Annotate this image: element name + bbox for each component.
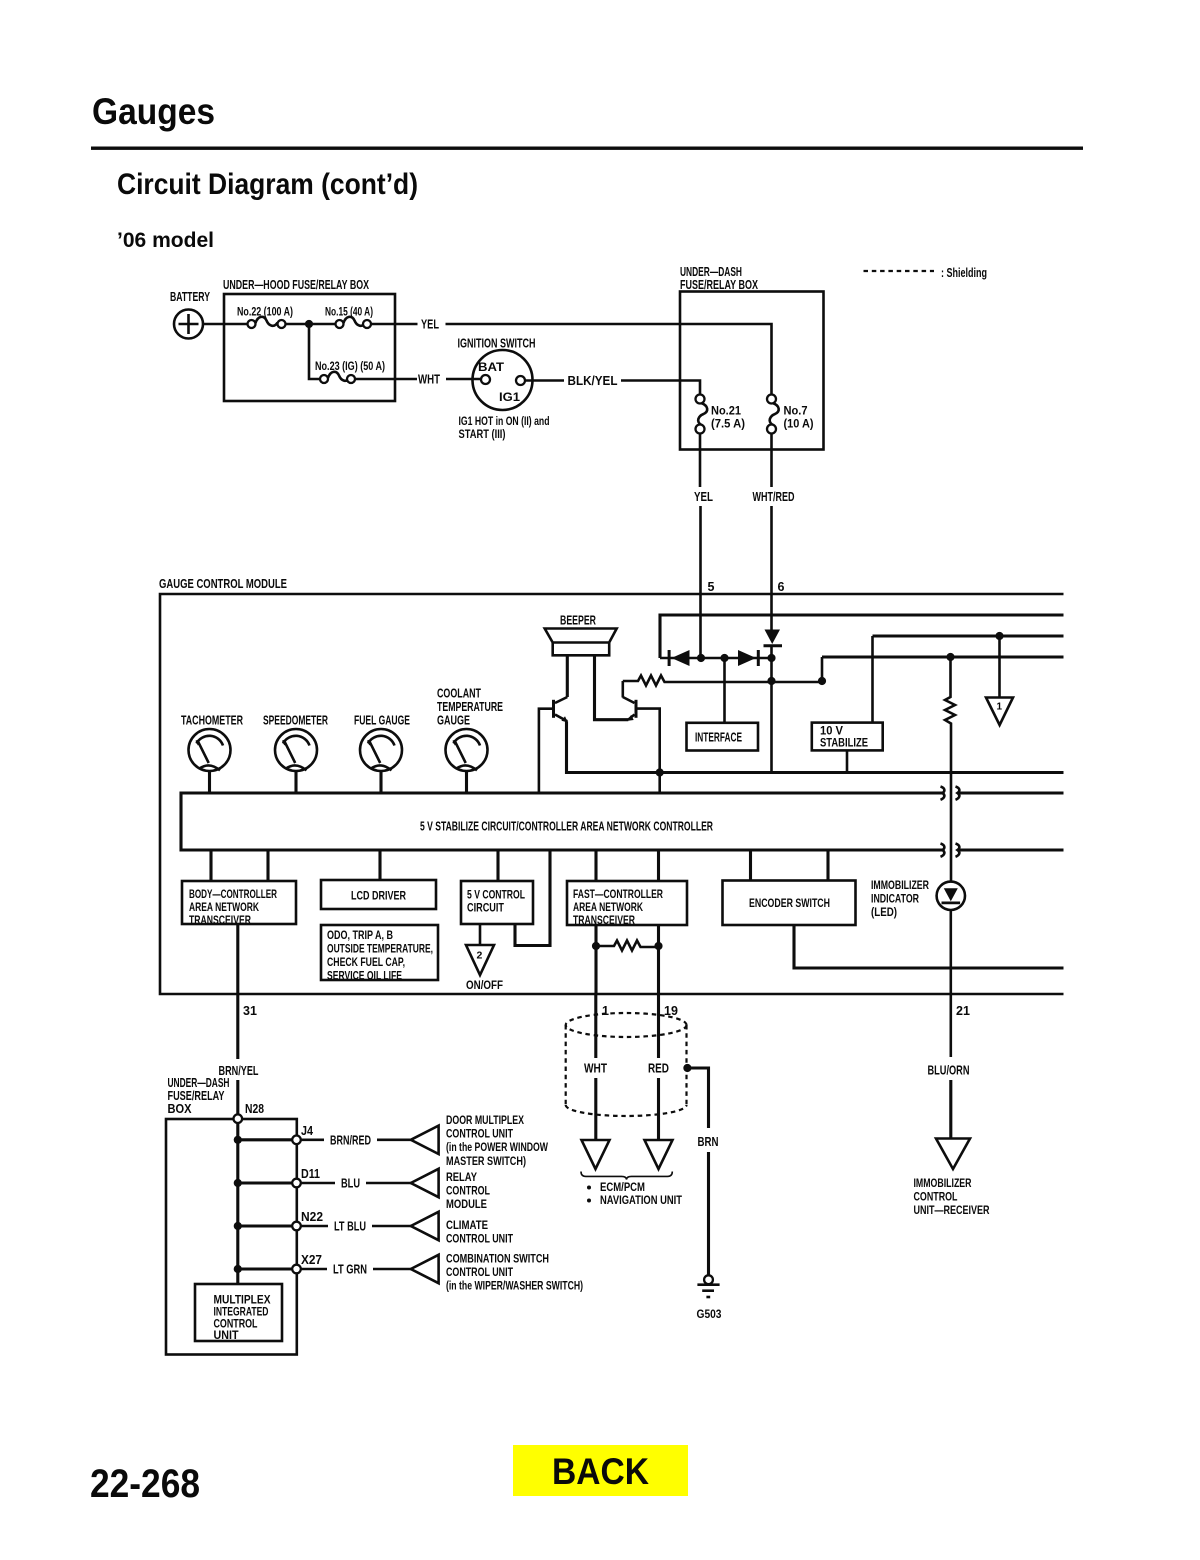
svg-text:BLK/YEL: BLK/YEL — [568, 374, 618, 388]
wire beeper right leg — [595, 655, 629, 719]
svg-text:FAST—CONTROLLER: FAST—CONTROLLER — [573, 889, 664, 901]
wire bus to fast CAN (right) — [657, 850, 660, 881]
wire body CAN to pin 31 — [236, 924, 239, 994]
svg-text:GAUGE CONTROL MODULE: GAUGE CONTROL MODULE — [159, 577, 287, 591]
diode D3 — [764, 630, 783, 648]
receiver triangle N22 — [411, 1212, 439, 1240]
net B horizontal — [873, 634, 1064, 637]
receiver triangle RED — [645, 1140, 673, 1169]
svg-text:BATTERY: BATTERY — [170, 290, 210, 304]
wire bus to 5V control circuit — [496, 850, 499, 881]
encoder switch box — [723, 881, 856, 926]
connector D11 — [292, 1179, 301, 1188]
svg-text:CONTROL: CONTROL — [214, 1319, 258, 1331]
svg-text:BEEPER: BEEPER — [560, 614, 596, 628]
svg-text:No.7: No.7 — [784, 406, 808, 418]
svg-text:BLU/ORN: BLU/ORN — [928, 1064, 970, 1078]
main bus box 5V stabilize/CAN controller — [181, 787, 1064, 857]
wire 10V stabilize to internal bus — [846, 750, 849, 772]
svg-text:IG1 HOT in ON (II) and: IG1 HOT in ON (II) and — [459, 416, 550, 428]
svg-text:BACK: BACK — [552, 1451, 649, 1492]
svg-text:WHT/RED: WHT/RED — [753, 490, 795, 504]
fuse No.7 (10 A) — [767, 395, 779, 434]
under-dash fuse/relay box — [680, 292, 824, 450]
diode row wire — [660, 657, 772, 660]
svg-text:CONTROL: CONTROL — [446, 1186, 490, 1198]
wire pin 1 to WHT — [594, 994, 597, 1058]
svg-text:(7.5 A): (7.5 A) — [711, 419, 745, 431]
svg-text:RED: RED — [648, 1062, 669, 1076]
svg-text:LT GRN: LT GRN — [333, 1263, 367, 1277]
svg-text:No.21: No.21 — [711, 406, 742, 418]
wire LED to pin 21 — [949, 910, 952, 1057]
under-dash fuse/relay box (lower) — [166, 1119, 297, 1355]
svg-text:Gauges: Gauges — [92, 91, 215, 132]
svg-text:TRANSCEIVER: TRANSCEIVER — [189, 915, 252, 927]
wire bus to fast CAN (left) — [594, 850, 597, 881]
node net A / LED branch — [946, 653, 954, 661]
svg-text:UNDER—DASH: UNDER—DASH — [168, 1076, 230, 1090]
node resistor R3 left — [592, 942, 600, 950]
transistor Q2 — [623, 697, 660, 793]
svg-text:FUSE/RELAY: FUSE/RELAY — [168, 1089, 225, 1103]
shielding cylinder — [566, 1013, 687, 1116]
svg-text:N22: N22 — [301, 1210, 323, 1224]
svg-text:5 V CONTROL: 5 V CONTROL — [467, 890, 525, 902]
wire bus to body CAN transceiver (left) — [209, 850, 212, 881]
svg-text:TEMPERATURE: TEMPERATURE — [437, 700, 503, 714]
svg-text:J4: J4 — [301, 1124, 313, 1138]
fast CAN transceiver box — [567, 881, 687, 925]
svg-text:CONTROL UNIT: CONTROL UNIT — [446, 1267, 513, 1279]
wire BLU/ORN to immobilizer receiver — [949, 1080, 952, 1139]
svg-text:UNIT—RECEIVER: UNIT—RECEIVER — [914, 1205, 991, 1217]
title rule — [91, 147, 1083, 150]
net C horizontal top — [660, 615, 1064, 658]
svg-text:CHECK FUEL CAP,: CHECK FUEL CAP, — [327, 957, 405, 969]
svg-text:CLIMATE: CLIMATE — [446, 1220, 488, 1232]
svg-text:LT BLU: LT BLU — [334, 1220, 366, 1234]
wire label LT BLU — [301, 1225, 328, 1228]
wire to N22 — [238, 1224, 292, 1227]
tachometer — [189, 729, 231, 771]
wire bus to encoder switch (right) — [826, 850, 829, 881]
fuse No.21 (7.5 A) — [696, 395, 708, 434]
resistor R3 — [599, 941, 655, 951]
wire bus to body CAN transceiver (right) — [266, 850, 269, 881]
svg-text:5: 5 — [708, 580, 715, 594]
wire bus to encoder switch (left) — [749, 850, 752, 881]
receiver triangle J4 — [411, 1126, 439, 1154]
svg-text:(in the WIPER/WASHER SWITCH): (in the WIPER/WASHER SWITCH) — [446, 1281, 583, 1293]
wire bus loop to 5V control bottom — [515, 850, 550, 946]
wire WHT to ECM triangle — [594, 1078, 597, 1140]
ignition switch — [473, 350, 533, 410]
wire WHT/RED into module — [770, 506, 773, 630]
node R1/pin6 — [767, 677, 775, 685]
diode D1 — [668, 650, 690, 666]
LCD driver box — [321, 880, 436, 909]
connector triangle 2 — [466, 945, 494, 975]
svg-text:MASTER SWITCH): MASTER SWITCH) — [446, 1156, 526, 1168]
wire corner up to net A — [821, 657, 824, 681]
gauge control module outline — [160, 594, 1064, 994]
wire shield to BRN — [687, 1068, 708, 1128]
node J4 branch — [234, 1136, 242, 1144]
node interface branch — [720, 654, 728, 662]
svg-text:6: 6 — [778, 580, 785, 594]
multiplex integrated control unit box — [195, 1284, 282, 1341]
list NAVIGATION UNIT — [587, 1199, 591, 1203]
node R1 right corner — [818, 677, 826, 685]
wire BRN to G503 — [707, 1152, 710, 1275]
ground triangle 1 wire — [998, 636, 1001, 698]
resistor R2 (LED) — [945, 657, 955, 882]
svg-text:ON/OFF: ON/OFF — [466, 980, 503, 992]
speedometer — [275, 729, 317, 771]
wire fast CAN to pin 19 — [657, 925, 660, 994]
wire interface branch — [723, 658, 726, 723]
svg-text:INTEGRATED: INTEGRATED — [214, 1307, 269, 1319]
wire tachometer to bus — [208, 771, 211, 793]
wire to J4 — [238, 1138, 292, 1141]
wire N28 down to MICU — [236, 1123, 239, 1284]
wire IG1 to BLK/YEL label — [525, 379, 564, 382]
svg-text:31: 31 — [243, 1004, 257, 1018]
svg-text:NAVIGATION UNIT: NAVIGATION UNIT — [600, 1195, 682, 1207]
node pin5 / diode row — [697, 654, 705, 662]
connector N22 — [292, 1222, 301, 1231]
10V stabilize box — [812, 723, 883, 751]
svg-text:SERVICE OIL LIFE: SERVICE OIL LIFE — [327, 971, 402, 983]
wire fuel gauge to bus — [379, 771, 382, 793]
net A horizontal — [822, 655, 1064, 658]
svg-text:ODO, TRIP A, B: ODO, TRIP A, B — [327, 930, 393, 942]
svg-text:Circuit Diagram (cont’d): Circuit Diagram (cont’d) — [117, 168, 418, 201]
svg-text:AREA NETWORK: AREA NETWORK — [573, 902, 644, 914]
wire 5V control to triangle 2 — [479, 924, 482, 945]
svg-text:G503: G503 — [697, 1309, 722, 1321]
svg-text:ECM/PCM: ECM/PCM — [600, 1182, 645, 1194]
resistor R1 — [623, 676, 822, 686]
wire beeper left leg — [566, 655, 569, 697]
wire fuse22 to node — [286, 323, 336, 326]
svg-text:: Shielding: : Shielding — [941, 266, 987, 280]
connector J4 — [292, 1136, 301, 1145]
svg-text:IGNITION SWITCH: IGNITION SWITCH — [458, 337, 536, 351]
svg-text:BOX: BOX — [168, 1102, 193, 1116]
svg-text:WHT: WHT — [584, 1062, 607, 1076]
svg-text:IMMOBILIZER: IMMOBILIZER — [914, 1178, 973, 1190]
wire fast CAN to pin 1 — [594, 925, 597, 994]
svg-text:COOLANT: COOLANT — [437, 687, 481, 701]
node net B / ground branch — [995, 632, 1003, 640]
svg-text:10 V: 10 V — [820, 726, 843, 738]
wire YEL to under-dash box — [446, 324, 772, 395]
svg-text:(10 A): (10 A) — [784, 419, 814, 431]
wire fuse15 to YEL label — [371, 323, 418, 326]
interface box — [687, 723, 759, 751]
svg-text:D11: D11 — [301, 1167, 320, 1181]
wire to X27 — [238, 1267, 292, 1270]
wire pin 19 to RED — [657, 994, 660, 1058]
svg-text:STABILIZE: STABILIZE — [820, 738, 868, 750]
coolant temperature gauge — [446, 729, 488, 771]
svg-text:AREA NETWORK: AREA NETWORK — [189, 902, 260, 914]
wire Q2 collector up — [621, 681, 624, 698]
wire Q1 emitter to internal bus — [567, 721, 1064, 772]
svg-text:2: 2 — [477, 950, 483, 962]
svg-text:BLU: BLU — [341, 1177, 360, 1191]
svg-text:ENCODER SWITCH: ENCODER SWITCH — [749, 898, 830, 910]
receiver triangle D11 — [411, 1169, 439, 1197]
terminal BAT — [481, 375, 490, 384]
svg-text:CONTROL UNIT: CONTROL UNIT — [446, 1233, 513, 1245]
svg-text:YEL: YEL — [421, 318, 439, 332]
wire battery to fuse box — [203, 323, 248, 326]
svg-text:X27: X27 — [301, 1253, 322, 1267]
ground G503 — [697, 1275, 719, 1297]
wire BRN/YEL to N28 — [236, 1080, 239, 1115]
ground triangle 1 — [986, 698, 1013, 726]
svg-text:IG1: IG1 — [499, 392, 521, 404]
node pin6 / diode row — [767, 654, 775, 662]
wire fuse7 down to WHT/RED label — [770, 434, 773, 488]
connector N28 — [234, 1114, 243, 1123]
wire pin 31 to BRN/YEL — [236, 994, 239, 1059]
svg-text:LCD DRIVER: LCD DRIVER — [351, 891, 407, 903]
node junction under-hood — [305, 320, 313, 328]
svg-text:MULTIPLEX: MULTIPLEX — [214, 1295, 271, 1307]
svg-text:No.23 (IG) (50 A): No.23 (IG) (50 A) — [315, 361, 385, 373]
svg-text:TRANSCEIVER: TRANSCEIVER — [573, 915, 636, 927]
transistor Q1 — [539, 697, 568, 793]
svg-text:YEL: YEL — [694, 490, 713, 504]
svg-text:OUTSIDE TEMPERATURE,: OUTSIDE TEMPERATURE, — [327, 944, 433, 956]
LCD functions box — [321, 925, 438, 980]
svg-text:RELAY: RELAY — [446, 1172, 477, 1184]
receiver triangle X27 — [411, 1255, 439, 1283]
wire fuse21 down to YEL label — [699, 434, 702, 488]
wire encoder switch out — [794, 925, 1064, 968]
body CAN transceiver box — [182, 881, 296, 924]
receiver triangle BLU/ORN — [936, 1139, 970, 1170]
svg-text:CONTROL: CONTROL — [914, 1192, 958, 1204]
svg-text:INDICATOR: INDICATOR — [871, 894, 920, 906]
node Q2 base / internal bus — [656, 768, 664, 776]
BACK button — [513, 1445, 688, 1496]
svg-text:FUEL GAUGE: FUEL GAUGE — [354, 714, 410, 728]
svg-text:GAUGE: GAUGE — [437, 714, 470, 728]
svg-text:MODULE: MODULE — [446, 1199, 487, 1211]
svg-text:TACHOMETER: TACHOMETER — [181, 714, 243, 728]
wire RED to ECM triangle — [657, 1078, 660, 1140]
svg-text:’06 model: ’06 model — [117, 229, 214, 252]
wire node to fuse23 — [309, 324, 320, 379]
wire to D11 — [238, 1181, 292, 1184]
svg-text:21: 21 — [956, 1004, 970, 1018]
svg-text:START (III): START (III) — [459, 429, 506, 441]
node N22 branch — [234, 1222, 242, 1230]
shielding legend — [864, 266, 988, 280]
svg-text:CONTROL UNIT: CONTROL UNIT — [446, 1129, 513, 1141]
svg-text:WHT: WHT — [418, 373, 440, 387]
node D11 branch — [234, 1179, 242, 1187]
under-hood fuse/relay box — [224, 294, 395, 401]
connector X27 — [292, 1265, 301, 1274]
svg-text:N28: N28 — [245, 1102, 264, 1116]
wire speedometer to bus — [294, 771, 297, 793]
fuse No.15 — [336, 317, 372, 328]
wire coolant gauge to bus — [465, 771, 468, 793]
5V control circuit box — [461, 881, 533, 924]
wire fuse23 to WHT label — [355, 378, 417, 381]
svg-text:1: 1 — [602, 1004, 609, 1018]
wire label LT GRN — [301, 1268, 327, 1271]
list ECM/PCM — [587, 1186, 591, 1190]
svg-text:BODY—CONTROLLER: BODY—CONTROLLER — [189, 889, 277, 901]
wire BLK/YEL to under-dash box — [621, 381, 700, 396]
svg-text:CIRCUIT: CIRCUIT — [467, 903, 504, 915]
terminal IG1 — [516, 376, 525, 385]
wire label BLU — [301, 1182, 335, 1185]
svg-text:1: 1 — [997, 702, 1003, 713]
fuel gauge — [360, 729, 402, 771]
wire pin6 down to internal bus — [770, 647, 773, 773]
svg-text:(in the POWER WINDOW: (in the POWER WINDOW — [446, 1142, 548, 1154]
svg-text:BAT: BAT — [478, 362, 504, 374]
svg-text:UNDER—DASH: UNDER—DASH — [680, 265, 742, 279]
node resistor R3 right — [654, 942, 662, 950]
wire YEL to module pin 5 — [699, 506, 702, 657]
svg-text:FUSE/RELAY BOX: FUSE/RELAY BOX — [680, 278, 758, 292]
diode D2 — [738, 650, 760, 666]
brace ECM/PCM — [581, 1172, 672, 1180]
svg-text:COMBINATION SWITCH: COMBINATION SWITCH — [446, 1254, 549, 1266]
svg-text:UNDER—HOOD FUSE/RELAY BOX: UNDER—HOOD FUSE/RELAY BOX — [223, 278, 369, 292]
svg-text:SPEEDOMETER: SPEEDOMETER — [263, 714, 328, 728]
wire bus to LCD driver — [378, 850, 381, 880]
svg-text:(LED): (LED) — [871, 907, 897, 919]
svg-text:5 V STABILIZE CIRCUIT/CONTROLL: 5 V STABILIZE CIRCUIT/CONTROLLER AREA NE… — [420, 820, 713, 834]
node shield to ground — [683, 1064, 691, 1072]
svg-text:BRN: BRN — [698, 1135, 719, 1149]
svg-text:UNIT: UNIT — [214, 1330, 239, 1342]
fuse No.23 — [320, 372, 355, 383]
wire net B to 10V stabilize — [871, 636, 874, 723]
svg-text:22-268: 22-268 — [90, 1462, 200, 1506]
beeper — [545, 629, 617, 656]
LED indicator — [937, 882, 965, 910]
svg-text:INTERFACE: INTERFACE — [695, 731, 742, 745]
receiver triangle WHT — [582, 1140, 610, 1169]
wire label BRN/RED — [301, 1139, 324, 1142]
battery — [174, 310, 203, 339]
fuse No.22 — [248, 317, 286, 328]
svg-text:DOOR MULTIPLEX: DOOR MULTIPLEX — [446, 1115, 524, 1127]
wire WHT to ignition switch — [446, 378, 481, 381]
svg-text:BRN/RED: BRN/RED — [330, 1134, 371, 1148]
svg-text:IMMOBILIZER: IMMOBILIZER — [871, 880, 930, 892]
node X27 branch — [234, 1265, 242, 1273]
